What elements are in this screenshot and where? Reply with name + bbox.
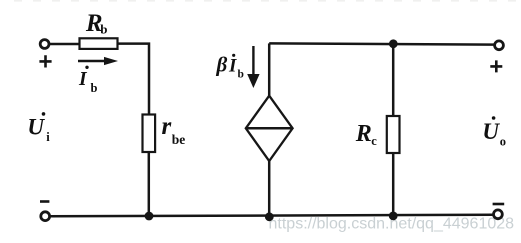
svg-text:U: U: [27, 115, 45, 140]
svg-text:I: I: [78, 69, 88, 90]
svg-text:b: b: [238, 69, 244, 81]
svg-text:o: o: [500, 135, 506, 149]
svg-text:R: R: [355, 121, 372, 147]
svg-text:b: b: [100, 22, 107, 37]
svg-text:I: I: [228, 56, 237, 77]
svg-text:be: be: [172, 132, 186, 147]
svg-text:U: U: [482, 119, 500, 144]
svg-text:b: b: [91, 81, 98, 95]
svg-text:c: c: [371, 134, 377, 148]
svg-text:β: β: [216, 53, 228, 77]
svg-text:r: r: [162, 113, 172, 140]
svg-text:i: i: [46, 130, 50, 144]
